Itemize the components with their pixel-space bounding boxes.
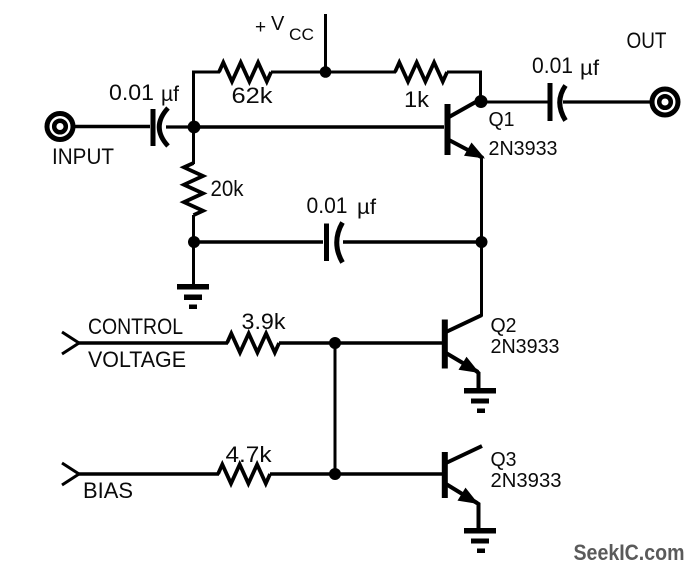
wire mid coupling left segment <box>194 240 323 243</box>
wire C1 to node A <box>166 125 196 128</box>
wire control input to 3.9k <box>78 341 228 345</box>
wire node A up to top rail <box>192 71 195 128</box>
svg-text:1k: 1k <box>404 87 430 112</box>
svg-text:µf: µf <box>357 196 376 219</box>
wire 62k to 1k (through Vcc node) <box>271 71 396 74</box>
resistor 3.9k <box>227 334 279 353</box>
svg-text:2N3933: 2N3933 <box>491 335 560 358</box>
wire input to C1 <box>74 125 150 128</box>
wire Vcc stub <box>324 14 327 72</box>
svg-text:20k: 20k <box>211 176 245 201</box>
wire mid coupling right segment <box>343 240 481 243</box>
svg-text:CONTROL: CONTROL <box>88 314 183 339</box>
wire 1k to collector drop <box>447 72 481 100</box>
capacitor C2 0.01uf output <box>550 83 566 121</box>
node bias/link junction <box>329 468 341 480</box>
wire collector to C2 <box>481 101 549 104</box>
wire 3.9k to Q2 base <box>279 341 442 345</box>
svg-text:0.01: 0.01 <box>307 193 348 218</box>
resistor 62k <box>219 63 271 82</box>
capacitor C3 0.01uf coupling <box>327 223 343 263</box>
transistor Q3 <box>442 446 482 504</box>
svg-text:BIAS: BIAS <box>83 478 133 503</box>
wire node A down to 20k <box>192 127 195 164</box>
CONTROL VOLTAGE input arrow <box>62 332 79 354</box>
wire C2 to OUT <box>563 100 652 103</box>
ground (Q2) <box>464 388 496 413</box>
svg-text:+: + <box>255 17 266 38</box>
svg-text:3.9k: 3.9k <box>242 309 287 334</box>
OUT terminal <box>652 89 678 115</box>
ground (20k) <box>177 284 209 309</box>
wire 4.7k to Q3 base <box>270 472 442 476</box>
wire Q1 emitter down to Q2 collector <box>480 157 483 316</box>
transistor Q2 <box>442 315 482 373</box>
INPUT terminal <box>47 114 73 140</box>
svg-text:CC: CC <box>289 25 314 44</box>
wire 20k to ground junction <box>192 215 195 284</box>
svg-text:Q1: Q1 <box>489 109 515 131</box>
wire top rail left segment <box>192 71 220 74</box>
wire Q3 emitter stub <box>474 501 479 528</box>
svg-text:0.01: 0.01 <box>109 80 154 105</box>
svg-text:2N3933: 2N3933 <box>489 137 558 160</box>
node A junction (input/base) <box>188 121 201 134</box>
svg-text:62k: 62k <box>232 83 274 108</box>
BIAS input arrow <box>62 463 79 485</box>
wire link control to bias <box>334 343 337 474</box>
svg-text:OUT: OUT <box>627 28 667 53</box>
wire bias input to 4.7k <box>78 472 219 476</box>
svg-text:4.7k: 4.7k <box>226 442 273 467</box>
svg-text:2N3933: 2N3933 <box>491 469 562 492</box>
resistor 20k <box>184 163 203 215</box>
svg-text:µf: µf <box>161 83 179 106</box>
node 20k bottom junction <box>188 236 200 248</box>
svg-text:SeekIC.com: SeekIC.com <box>574 540 685 565</box>
capacitor C1 0.01uf input <box>153 108 168 146</box>
wire base of Q1 <box>194 125 445 128</box>
transistor Q1 <box>445 99 486 159</box>
resistor 4.7k <box>218 465 270 484</box>
wire Q2 emitter stub <box>475 370 479 388</box>
node emitter/coupling junction <box>476 236 488 248</box>
collector junction dot Q1 <box>475 95 488 108</box>
svg-text:0.01: 0.01 <box>532 53 573 78</box>
node control/link junction <box>329 337 341 349</box>
Vcc junction dot <box>320 66 332 78</box>
svg-text:Q3: Q3 <box>491 449 517 471</box>
svg-text:V: V <box>271 13 285 35</box>
svg-text:Q2: Q2 <box>491 315 517 337</box>
resistor 1k <box>395 63 447 82</box>
ground (Q3) <box>464 528 496 553</box>
svg-text:INPUT: INPUT <box>52 144 114 169</box>
svg-text:VOLTAGE: VOLTAGE <box>88 347 186 372</box>
svg-text:µf: µf <box>580 57 599 80</box>
